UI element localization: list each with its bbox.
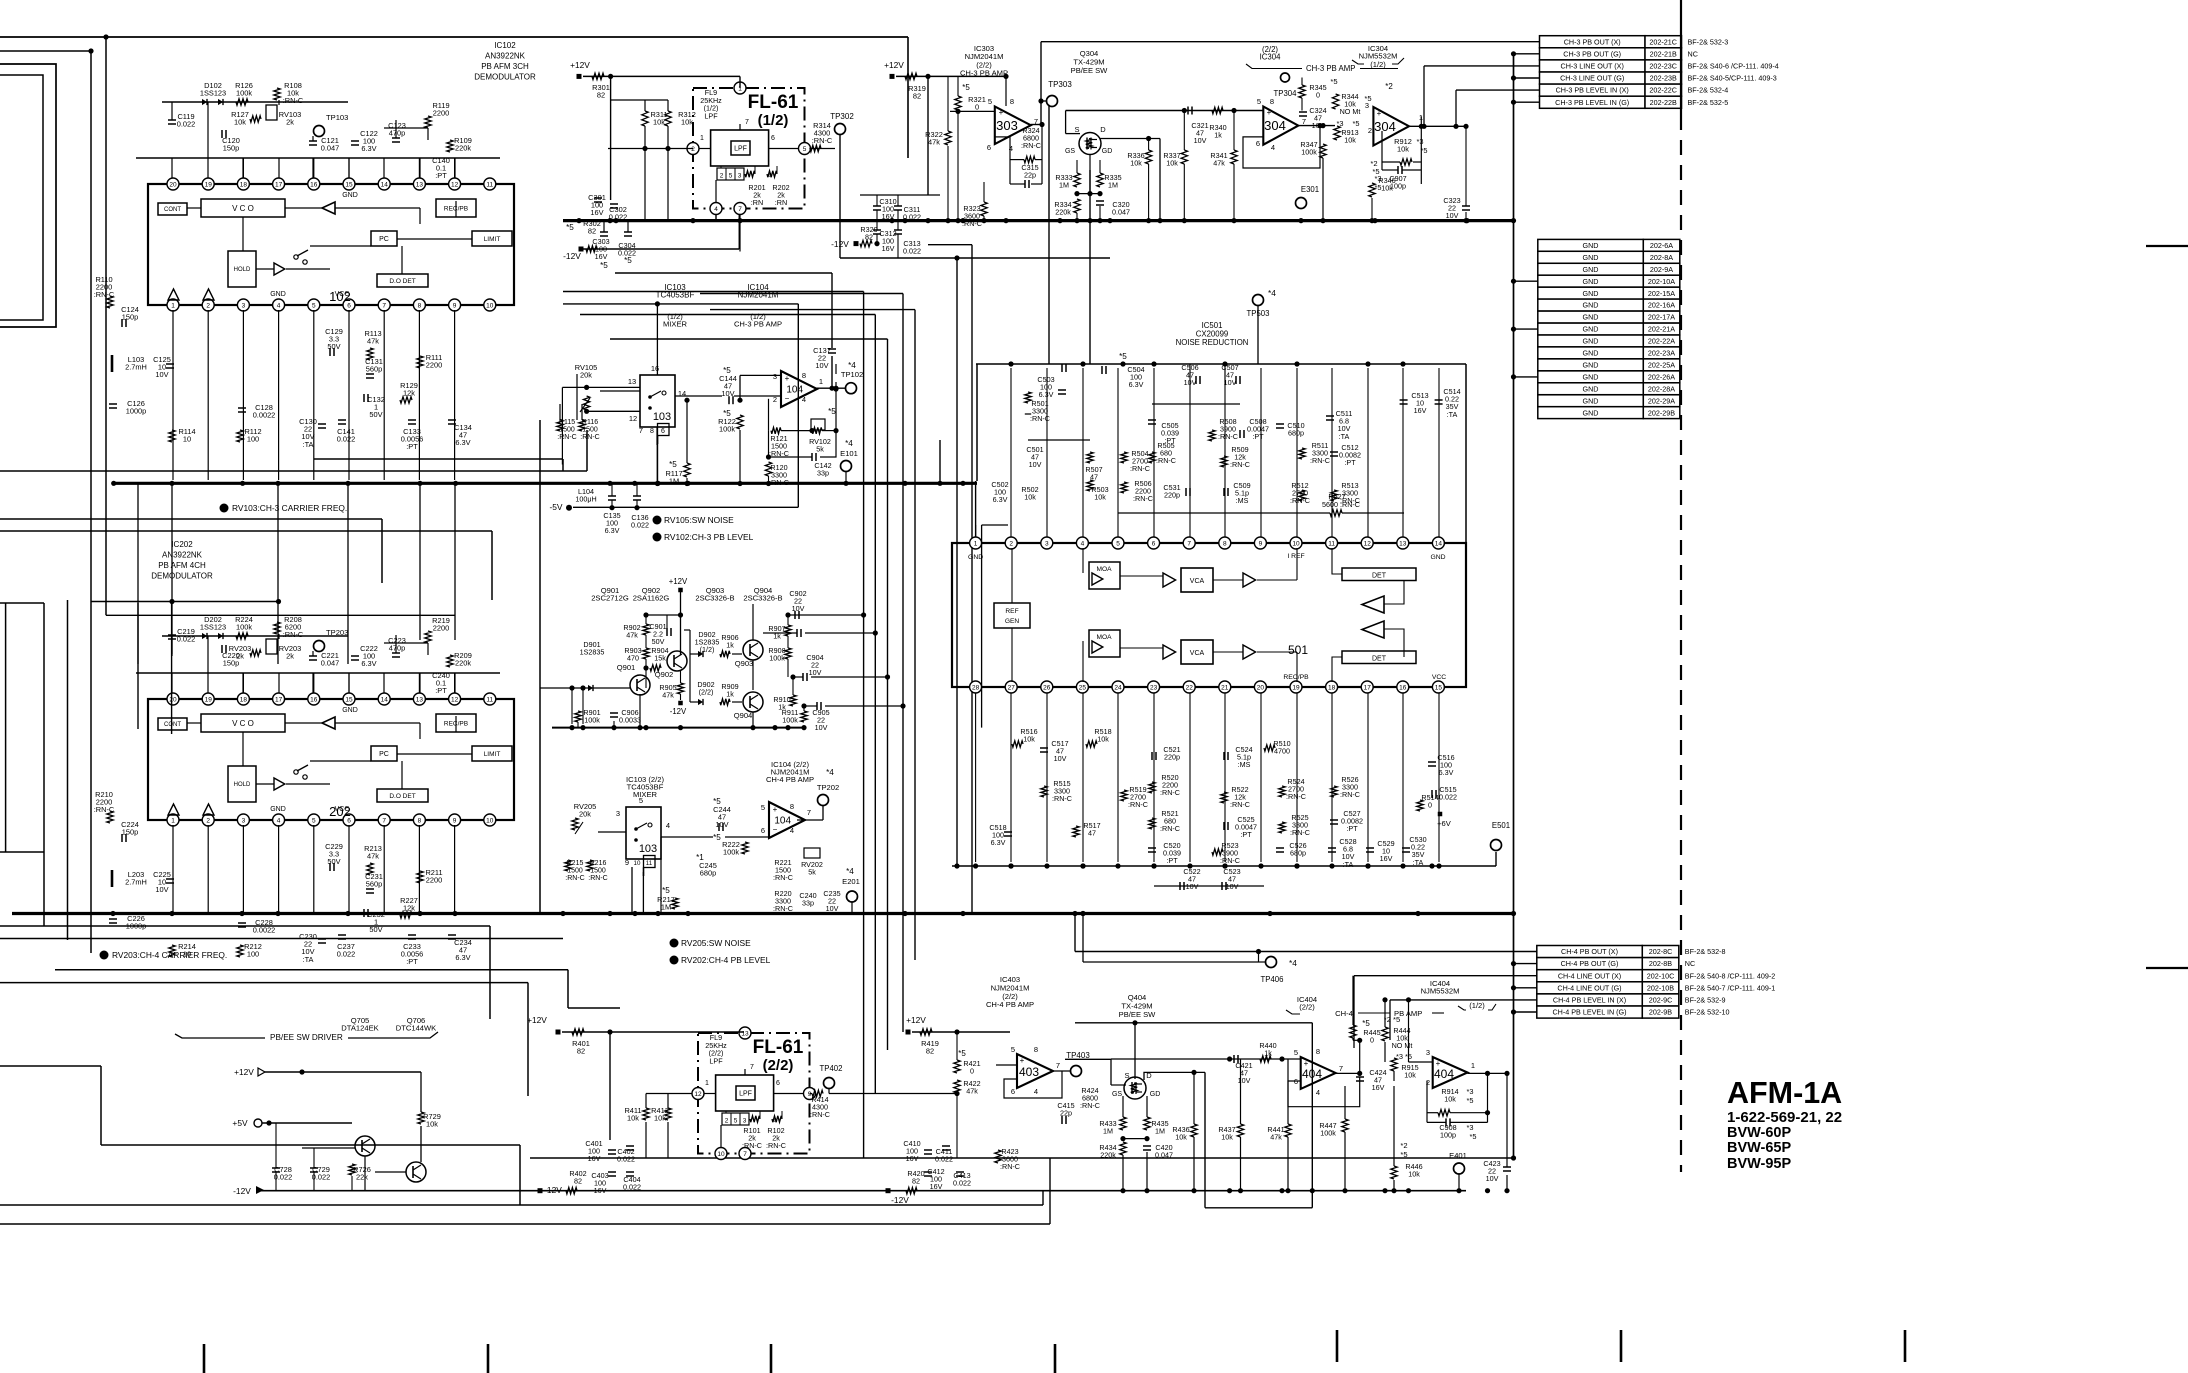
svg-text::RN-C: :RN-C <box>1160 824 1180 833</box>
svg-text:47k: 47k <box>367 337 379 346</box>
svg-text:*5: *5 <box>1353 119 1360 128</box>
svg-text:1SS123: 1SS123 <box>200 623 226 632</box>
svg-text:LPF: LPF <box>739 1091 752 1098</box>
svg-text:MOA: MOA <box>1096 634 1112 641</box>
svg-text:3: 3 <box>773 372 777 381</box>
svg-text:D.O DET: D.O DET <box>389 793 415 800</box>
svg-text:GND: GND <box>1583 349 1599 358</box>
svg-text:560p: 560p <box>366 880 382 889</box>
svg-text:*5: *5 <box>713 833 721 842</box>
svg-text:CH-4 PB LEVEL IN (X): CH-4 PB LEVEL IN (X) <box>1553 996 1626 1005</box>
svg-text:DET: DET <box>1372 656 1387 663</box>
svg-text:5: 5 <box>734 1118 738 1125</box>
svg-text:1: 1 <box>171 817 175 824</box>
svg-text:0.022: 0.022 <box>337 435 356 444</box>
svg-text::RN-C: :RN-C <box>1340 790 1360 799</box>
svg-text:E101: E101 <box>840 449 858 458</box>
svg-text::RN-C: :RN-C <box>812 136 833 145</box>
svg-text:470p: 470p <box>389 129 405 138</box>
svg-text:+12V: +12V <box>669 577 688 586</box>
svg-text:1000p: 1000p <box>126 407 147 416</box>
svg-text:5: 5 <box>1116 540 1120 547</box>
svg-text:10V: 10V <box>155 885 168 894</box>
svg-text:150p: 150p <box>122 828 138 837</box>
svg-text:0.022: 0.022 <box>935 1155 953 1164</box>
svg-text:7: 7 <box>743 1151 747 1158</box>
svg-text:+: + <box>1377 109 1382 118</box>
svg-text:20: 20 <box>1257 684 1265 691</box>
svg-text:0.022: 0.022 <box>1439 793 1457 802</box>
svg-text:10V: 10V <box>815 723 828 732</box>
svg-text:680p: 680p <box>700 869 716 878</box>
svg-text:202-26A: 202-26A <box>1648 372 1675 381</box>
svg-text:0: 0 <box>970 1067 974 1076</box>
svg-text:6: 6 <box>776 1080 780 1087</box>
svg-text::RN-C: :RN-C <box>580 434 599 441</box>
svg-text:10k: 10k <box>1094 493 1106 502</box>
svg-text:20: 20 <box>169 696 177 703</box>
svg-text:10k: 10k <box>1381 184 1393 193</box>
svg-text:33p: 33p <box>802 899 814 908</box>
svg-text:24: 24 <box>1114 684 1122 691</box>
svg-text:15: 15 <box>1435 684 1443 691</box>
svg-text:11: 11 <box>486 181 493 188</box>
svg-text:*3: *3 <box>1467 1087 1474 1096</box>
svg-text:-5V: -5V <box>549 502 562 512</box>
svg-text::PT: :PT <box>406 957 418 966</box>
svg-text:100: 100 <box>247 435 259 444</box>
svg-text:PB/EE SW: PB/EE SW <box>1071 66 1109 75</box>
svg-text:4: 4 <box>790 826 794 835</box>
svg-text:*5: *5 <box>1400 1150 1407 1159</box>
svg-text:10k: 10k <box>1221 1133 1233 1142</box>
svg-text:9: 9 <box>625 858 629 867</box>
svg-text::PT: :PT <box>1166 856 1178 865</box>
svg-text:12: 12 <box>451 696 459 703</box>
svg-text:2200: 2200 <box>426 876 442 885</box>
svg-text:S: S <box>1124 1071 1129 1080</box>
svg-text:9: 9 <box>1259 540 1263 547</box>
svg-text:0.022: 0.022 <box>903 247 921 256</box>
svg-text:PB AMP: PB AMP <box>1394 1009 1422 1018</box>
svg-text:*5: *5 <box>600 261 608 270</box>
svg-text:10k: 10k <box>1444 1095 1456 1104</box>
svg-text:7: 7 <box>1302 117 1306 126</box>
svg-text::RN-C: :RN-C <box>557 434 576 441</box>
svg-text:10k: 10k <box>1023 735 1035 744</box>
svg-text:S: S <box>1074 125 1079 134</box>
svg-text:LPF: LPF <box>704 111 718 120</box>
svg-text:16: 16 <box>651 364 659 373</box>
svg-text:28: 28 <box>972 684 980 691</box>
svg-text:12k: 12k <box>403 904 415 913</box>
svg-text:2.7mH: 2.7mH <box>125 878 147 887</box>
svg-text:BF-2& 532-10: BF-2& 532-10 <box>1685 1008 1730 1017</box>
svg-text:FL-61: FL-61 <box>748 92 799 113</box>
svg-text:VCA: VCA <box>1190 650 1205 657</box>
svg-text:Q903: Q903 <box>735 659 754 668</box>
svg-text:5k: 5k <box>816 445 824 454</box>
svg-text:PB/EE SW DRIVER: PB/EE SW DRIVER <box>270 1033 343 1042</box>
svg-text:E301: E301 <box>1301 185 1319 194</box>
svg-text:2200: 2200 <box>433 624 449 633</box>
svg-text::PT: :PT <box>1240 830 1252 839</box>
svg-text::MS: :MS <box>1238 760 1251 769</box>
svg-text:TP402: TP402 <box>820 1064 843 1073</box>
svg-text:NO Mt: NO Mt <box>1392 1041 1413 1050</box>
svg-text:6.3V: 6.3V <box>361 144 376 153</box>
svg-text:100μH: 100μH <box>575 495 596 504</box>
svg-text:0.0022: 0.0022 <box>253 926 276 935</box>
svg-text:5: 5 <box>803 146 807 153</box>
svg-text:50V: 50V <box>652 637 665 646</box>
svg-text:PC: PC <box>379 751 389 758</box>
svg-text::RN-C: :RN-C <box>1080 1101 1100 1110</box>
svg-text:0.022: 0.022 <box>177 120 196 129</box>
svg-text:6.3V: 6.3V <box>455 438 470 447</box>
svg-text:1: 1 <box>700 135 704 142</box>
svg-text:10k: 10k <box>1397 145 1409 154</box>
svg-text:10: 10 <box>717 1151 725 1158</box>
svg-text:VCC: VCC <box>335 806 350 813</box>
svg-text:4: 4 <box>666 821 670 830</box>
svg-text:FL-61: FL-61 <box>753 1037 804 1058</box>
svg-text:GND: GND <box>1583 289 1599 298</box>
svg-text:IC202: IC202 <box>171 540 193 549</box>
svg-text:CH-4: CH-4 <box>1335 1009 1353 1018</box>
svg-text:202-28A: 202-28A <box>1648 384 1675 393</box>
svg-text:GND: GND <box>1583 265 1599 274</box>
svg-text:BF-2& 532-9: BF-2& 532-9 <box>1685 996 1726 1005</box>
svg-text:*5: *5 <box>1470 1132 1477 1141</box>
svg-text:16V: 16V <box>1372 1083 1385 1092</box>
svg-text:NOISE REDUCTION: NOISE REDUCTION <box>1176 338 1249 347</box>
svg-text:202-22A: 202-22A <box>1648 337 1675 346</box>
svg-text:150p: 150p <box>223 144 239 153</box>
svg-text:10k: 10k <box>1097 735 1109 744</box>
svg-text:GND: GND <box>1430 554 1445 561</box>
svg-text:13: 13 <box>416 696 424 703</box>
svg-text:NJM5532M: NJM5532M <box>1421 987 1460 996</box>
svg-text:2SC2712G: 2SC2712G <box>591 594 629 603</box>
svg-text:CH-3 PB AMP: CH-3 PB AMP <box>1306 64 1355 73</box>
svg-text:1S2835: 1S2835 <box>580 648 605 657</box>
svg-text:202-10A: 202-10A <box>1648 277 1675 286</box>
svg-text:GD: GD <box>1102 148 1113 155</box>
svg-text:16V: 16V <box>590 208 603 217</box>
svg-text:20k: 20k <box>580 371 592 380</box>
svg-text:BF-2& 540-7 /CP-111. 409-1: BF-2& 540-7 /CP-111. 409-1 <box>1685 983 1775 992</box>
svg-text:3: 3 <box>738 173 742 180</box>
svg-text:47k: 47k <box>928 138 940 147</box>
svg-text:AN3922NK: AN3922NK <box>162 551 203 560</box>
svg-text:16V: 16V <box>930 1182 943 1191</box>
svg-text:8: 8 <box>1316 1047 1320 1056</box>
svg-text:TP303: TP303 <box>1048 80 1072 89</box>
svg-text:82: 82 <box>588 227 596 236</box>
svg-text:20k: 20k <box>579 810 591 819</box>
svg-text:MIXER: MIXER <box>633 790 658 799</box>
svg-text:8: 8 <box>1270 97 1274 106</box>
svg-text:GND: GND <box>1583 277 1599 286</box>
svg-text:19: 19 <box>205 696 213 703</box>
svg-text:1: 1 <box>974 540 978 547</box>
svg-text:0.022: 0.022 <box>617 1155 635 1164</box>
svg-text:Q901: Q901 <box>617 663 636 672</box>
svg-text:2: 2 <box>206 817 210 824</box>
svg-text:*5: *5 <box>713 797 721 806</box>
svg-text:BF-2& 532-5: BF-2& 532-5 <box>1688 98 1729 107</box>
svg-text:220p: 220p <box>1164 491 1180 500</box>
svg-text:20: 20 <box>169 181 177 188</box>
svg-text:GND: GND <box>1583 372 1599 381</box>
svg-text:GND: GND <box>270 806 286 813</box>
svg-text:10k: 10k <box>653 118 665 127</box>
svg-text:22p: 22p <box>1024 171 1036 180</box>
svg-text:2SC3326-B: 2SC3326-B <box>695 594 734 603</box>
svg-text:5: 5 <box>729 173 733 180</box>
svg-text:3: 3 <box>242 817 246 824</box>
svg-text:26: 26 <box>1043 684 1051 691</box>
svg-text:*4: *4 <box>846 867 854 876</box>
svg-text:18: 18 <box>240 181 248 188</box>
svg-text:PC: PC <box>379 236 389 243</box>
svg-text:TP103: TP103 <box>326 113 348 122</box>
svg-text:560p: 560p <box>366 365 382 374</box>
svg-text:82: 82 <box>597 91 605 100</box>
svg-text:6.3V: 6.3V <box>361 659 376 668</box>
svg-text:12k: 12k <box>403 389 415 398</box>
svg-text:GND: GND <box>1583 408 1599 417</box>
svg-text:CH-4 PB AMP: CH-4 PB AMP <box>766 775 814 784</box>
svg-text:1k: 1k <box>726 641 734 650</box>
svg-text:47k: 47k <box>626 631 638 640</box>
svg-text:PB AFM 4CH: PB AFM 4CH <box>158 561 206 570</box>
svg-text:0.022: 0.022 <box>337 950 356 959</box>
svg-text:304: 304 <box>1264 118 1286 133</box>
svg-text:10k: 10k <box>627 1114 639 1123</box>
svg-text:10k: 10k <box>1024 493 1036 502</box>
svg-text:7: 7 <box>1056 1061 1060 1070</box>
svg-text:19: 19 <box>205 181 213 188</box>
svg-text:RV202:CH-4 PB LEVEL: RV202:CH-4 PB LEVEL <box>681 955 771 965</box>
svg-text:Q904: Q904 <box>734 711 753 720</box>
svg-text:+: + <box>999 108 1004 117</box>
svg-text:PB/EE SW: PB/EE SW <box>1119 1010 1157 1019</box>
svg-text:*5: *5 <box>1372 167 1379 176</box>
svg-text:404: 404 <box>1434 1067 1454 1081</box>
svg-text:202-8B: 202-8B <box>1649 959 1672 968</box>
svg-text::RN-C: :RN-C <box>1230 800 1250 809</box>
svg-text:CONT: CONT <box>164 722 181 728</box>
svg-text:5: 5 <box>312 817 316 824</box>
svg-text:12: 12 <box>1364 540 1372 547</box>
svg-text:*5: *5 <box>958 1049 966 1058</box>
svg-text:16V: 16V <box>882 212 895 221</box>
svg-text:+: + <box>1436 1059 1441 1068</box>
svg-text:HOLD: HOLD <box>234 267 251 273</box>
svg-text:220k: 220k <box>455 659 471 668</box>
svg-text:202-8A: 202-8A <box>1650 253 1673 262</box>
svg-text:10k: 10k <box>1175 1133 1187 1142</box>
svg-text:*4: *4 <box>848 361 856 370</box>
svg-text:*2: *2 <box>1400 1141 1407 1150</box>
svg-text:AFM-1A: AFM-1A <box>1727 1076 1842 1110</box>
svg-text:10V: 10V <box>826 904 839 913</box>
svg-text::RN-C: :RN-C <box>1220 856 1240 865</box>
svg-text:16V: 16V <box>1414 406 1427 415</box>
svg-text:+: + <box>1020 1056 1025 1065</box>
svg-text:RV105:SW NOISE: RV105:SW NOISE <box>664 515 734 525</box>
svg-text:202-10B: 202-10B <box>1647 983 1674 992</box>
svg-text:3: 3 <box>242 302 246 309</box>
svg-text:202-29B: 202-29B <box>1648 408 1675 417</box>
svg-text:GND: GND <box>1583 301 1599 310</box>
svg-text:BF-2& 532-4: BF-2& 532-4 <box>1688 86 1729 95</box>
svg-text:220p: 220p <box>1164 753 1180 762</box>
svg-text:202-25A: 202-25A <box>1648 361 1675 370</box>
svg-text:7: 7 <box>1187 540 1191 547</box>
svg-text:6.3V: 6.3V <box>605 526 620 535</box>
svg-text:GND: GND <box>1583 313 1599 322</box>
svg-text::RN-C: :RN-C <box>1130 464 1150 473</box>
svg-text::RN-C: :RN-C <box>773 873 793 882</box>
svg-text:+: + <box>785 374 790 383</box>
svg-text:IC102: IC102 <box>494 41 516 50</box>
svg-text:17: 17 <box>275 696 283 703</box>
svg-text:1M: 1M <box>1155 1127 1165 1136</box>
svg-text:0.0033: 0.0033 <box>619 716 641 725</box>
svg-text::TA: :TA <box>1343 860 1354 869</box>
svg-text:10V: 10V <box>715 820 728 829</box>
svg-text:*3: *3 <box>1417 137 1424 146</box>
svg-text:1SS123: 1SS123 <box>200 89 226 98</box>
svg-text:0.047: 0.047 <box>321 659 340 668</box>
svg-text:10k: 10k <box>1404 1071 1416 1080</box>
svg-text:GND: GND <box>1583 325 1599 334</box>
svg-text:15k: 15k <box>654 654 666 663</box>
svg-text::RN-C: :RN-C <box>1286 792 1306 801</box>
svg-text:+12V: +12V <box>884 60 904 70</box>
svg-text:*5: *5 <box>624 256 632 265</box>
svg-text:47k: 47k <box>662 691 674 700</box>
svg-text:6.3V: 6.3V <box>1129 380 1144 389</box>
svg-text:NO Mt: NO Mt <box>1340 107 1361 116</box>
svg-text:2: 2 <box>725 1118 729 1125</box>
svg-text:*5: *5 <box>669 460 677 469</box>
svg-text:202-6A: 202-6A <box>1650 241 1673 250</box>
svg-text:2: 2 <box>206 302 210 309</box>
svg-text::RN-C: :RN-C <box>773 904 793 913</box>
svg-text:VCC: VCC <box>1432 674 1446 681</box>
svg-text::RN-C: :RN-C <box>766 1141 786 1150</box>
svg-text:0.047: 0.047 <box>321 144 340 153</box>
svg-text:9: 9 <box>453 817 457 824</box>
svg-text:DEMODULATOR: DEMODULATOR <box>474 73 536 82</box>
svg-text:MIXER: MIXER <box>663 320 688 329</box>
svg-text:7: 7 <box>738 206 742 213</box>
svg-text:7: 7 <box>750 1064 754 1071</box>
svg-text:+5V: +5V <box>232 1118 248 1128</box>
svg-text:DTC144WK: DTC144WK <box>396 1024 437 1033</box>
svg-text:6: 6 <box>661 428 665 435</box>
svg-text:2SA1162G: 2SA1162G <box>633 594 670 603</box>
svg-text:100k: 100k <box>782 716 798 725</box>
svg-text:470p: 470p <box>389 644 405 653</box>
svg-text:100k: 100k <box>723 848 739 857</box>
svg-text::TA: :TA <box>303 440 314 449</box>
svg-text:2k: 2k <box>286 118 294 127</box>
svg-text:680p: 680p <box>1290 849 1306 858</box>
svg-text::MS: :MS <box>1236 496 1249 505</box>
svg-text:(1/2): (1/2) <box>758 112 789 129</box>
svg-text:304: 304 <box>1374 119 1396 134</box>
svg-text:CH-4 LINE OUT (X): CH-4 LINE OUT (X) <box>1558 971 1621 980</box>
svg-text:7: 7 <box>382 817 386 824</box>
svg-text:8: 8 <box>418 302 422 309</box>
svg-text:2: 2 <box>1009 540 1013 547</box>
svg-text::TA: :TA <box>303 955 314 964</box>
svg-text:GEN: GEN <box>1005 618 1020 625</box>
svg-text:8: 8 <box>802 371 806 380</box>
svg-text:V C O: V C O <box>232 719 254 728</box>
svg-text:4: 4 <box>802 395 806 404</box>
svg-text:12: 12 <box>694 1091 702 1098</box>
svg-text:*5: *5 <box>828 407 836 416</box>
svg-text:CH-3 PB LEVEL IN (G): CH-3 PB LEVEL IN (G) <box>1555 98 1629 107</box>
svg-text:6: 6 <box>771 135 775 142</box>
svg-text:6.3V: 6.3V <box>993 495 1008 504</box>
svg-text:103: 103 <box>653 411 671 423</box>
svg-text:6.3V: 6.3V <box>455 953 470 962</box>
svg-text:10k: 10k <box>1166 159 1178 168</box>
svg-text:CH-3 LINE OUT (G): CH-3 LINE OUT (G) <box>1560 74 1624 83</box>
svg-text:+12V: +12V <box>906 1015 926 1025</box>
svg-text:202-21C: 202-21C <box>1649 37 1677 46</box>
svg-text:100: 100 <box>247 950 259 959</box>
svg-text:16V: 16V <box>882 244 895 253</box>
svg-text:10k: 10k <box>1344 136 1356 145</box>
svg-text::TA: :TA <box>1447 410 1458 419</box>
svg-text:CH-3 PB OUT (G): CH-3 PB OUT (G) <box>1563 49 1621 58</box>
svg-text:202-22B: 202-22B <box>1650 98 1677 107</box>
svg-text:E401: E401 <box>1449 1151 1467 1160</box>
svg-text:303: 303 <box>996 118 1018 133</box>
svg-text:202-15A: 202-15A <box>1648 289 1675 298</box>
svg-text:19: 19 <box>1292 684 1300 691</box>
svg-text:5k: 5k <box>808 868 816 877</box>
svg-text:1k: 1k <box>1214 131 1222 140</box>
svg-text::RN-C: :RN-C <box>1156 456 1176 465</box>
svg-text:GND: GND <box>1583 337 1599 346</box>
svg-text:12: 12 <box>629 414 637 423</box>
svg-text:1M: 1M <box>661 903 671 912</box>
svg-text:501: 501 <box>1288 643 1308 657</box>
svg-text:10: 10 <box>634 860 641 867</box>
svg-text:10V: 10V <box>1186 882 1199 891</box>
svg-text:5: 5 <box>1257 97 1261 106</box>
svg-text:D: D <box>1100 125 1106 134</box>
svg-text:0.022: 0.022 <box>609 213 628 222</box>
svg-text::RN-C: :RN-C <box>1230 460 1250 469</box>
svg-text:404: 404 <box>1302 1067 1322 1081</box>
svg-text:DTA124EK: DTA124EK <box>341 1024 378 1033</box>
svg-text:16V: 16V <box>1380 854 1393 863</box>
svg-text:5: 5 <box>1294 1048 1298 1057</box>
svg-text:202-9C: 202-9C <box>1649 996 1673 1005</box>
svg-text:82: 82 <box>912 1177 920 1186</box>
svg-text:TP304: TP304 <box>1274 89 1298 98</box>
